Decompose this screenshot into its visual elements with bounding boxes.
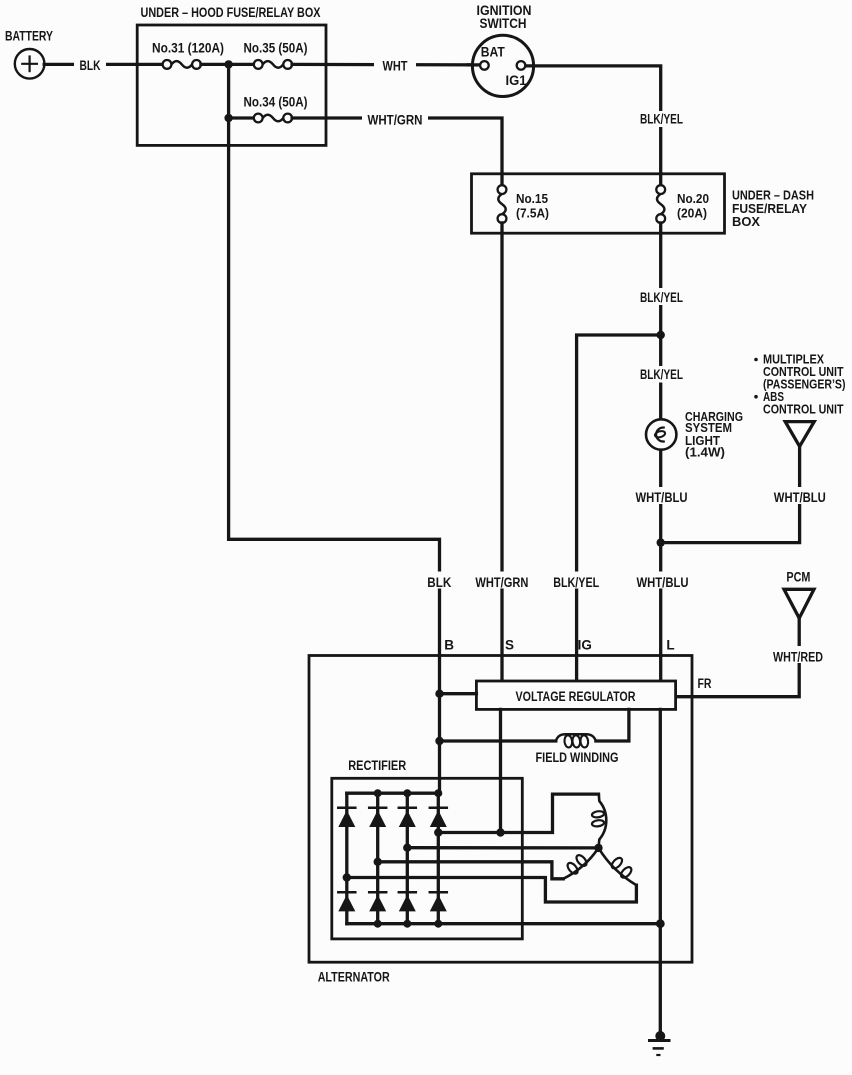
lower diode D8: [430, 892, 447, 911]
svg-text:FR: FR: [698, 676, 712, 691]
phase row C wire: [378, 862, 564, 879]
multiplex connector triangle: [785, 422, 814, 447]
lower diode D6: [369, 892, 386, 911]
svg-text:S: S: [505, 638, 514, 653]
wire IG1 terminal to BLK/YEL trunk: [525, 66, 660, 185]
phase row D wire: [347, 878, 637, 903]
svg-text:VOLTAGE REGULATOR: VOLTAGE REGULATOR: [516, 689, 636, 704]
svg-text:FIELD WINDING: FIELD WINDING: [536, 750, 619, 765]
fuse No.15 (7.5A): [498, 185, 507, 223]
svg-text:WHT/GRN: WHT/GRN: [475, 575, 528, 590]
bottom bus junction col4: [434, 920, 442, 928]
svg-text:L: L: [666, 638, 674, 653]
PCM connector triangle: [784, 589, 814, 618]
svg-text:IG: IG: [578, 638, 592, 653]
field winding wire right to regulator: [596, 709, 629, 741]
svg-text:WHT: WHT: [383, 59, 409, 74]
svg-text:BLK: BLK: [427, 575, 451, 590]
IG branch wire from trunk junction: [577, 335, 661, 681]
svg-text:BLK/YEL: BLK/YEL: [640, 111, 683, 126]
phase row B wire to neutral node: [407, 846, 598, 850]
BAT terminal pin: [480, 61, 489, 70]
wire WHT fuse35 to ignition switch: [292, 63, 480, 67]
upper diode D2: [369, 808, 386, 827]
top bus junction col2: [374, 789, 382, 797]
wire into BAT terminal: [468, 63, 480, 66]
voltage regulator box: [476, 681, 675, 709]
svg-text:No.34 (50A): No.34 (50A): [244, 95, 308, 110]
bottom bus junction col3: [403, 920, 411, 928]
rectifier top bus: [347, 792, 439, 795]
L line regulator to ground bus: [659, 709, 662, 1033]
svg-text:(7.5A): (7.5A): [516, 206, 549, 221]
neutral node of stator: [594, 844, 602, 852]
svg-text:ALTERNATOR: ALTERNATOR: [318, 970, 390, 985]
wire name row: WHT/BLU: [633, 572, 688, 589]
svg-text:PCM: PCM: [786, 569, 810, 584]
upper diode D1: [338, 808, 355, 827]
junction bottom bus to L/ground line: [656, 919, 665, 928]
svg-text:BLK/YEL: BLK/YEL: [640, 367, 683, 382]
wire WHT/BLU from multiplex triangle: [661, 446, 800, 542]
BLK vertical trunk from under-hood box down: [229, 118, 440, 793]
svg-text:CONTROL UNIT: CONTROL UNIT: [763, 401, 844, 416]
alternator box: [309, 656, 692, 963]
wire name row: BLK: [424, 572, 455, 589]
junction row C col2: [374, 858, 382, 866]
phase row A wire to stator coil 1: [438, 794, 598, 832]
svg-text:No.35 (50A): No.35 (50A): [244, 41, 308, 56]
svg-text:WHT/GRN: WHT/GRN: [368, 113, 423, 128]
label gap WHT/BLU mid: [634, 487, 689, 504]
junction node on main feed: [224, 60, 232, 68]
wire name row: BLK/YEL: [553, 572, 600, 589]
wire junction to fuse34: [229, 116, 254, 119]
lower diode D5: [338, 892, 355, 911]
diode column 4 wire: [437, 793, 440, 924]
junction node BLK/YEL branch: [657, 331, 665, 339]
stator coil 3 (right): [599, 848, 637, 885]
top bus junction col3: [403, 789, 411, 797]
charging system light label: [685, 409, 743, 460]
junction node WHT/BLU: [657, 538, 665, 546]
battery B1 symbol: [15, 49, 45, 79]
junction row B col3: [403, 844, 411, 852]
under-dash fuse/relay box: [472, 174, 725, 233]
svg-text:BATTERY: BATTERY: [5, 29, 53, 44]
svg-text:WHT/BLU: WHT/BLU: [636, 490, 688, 505]
fuse No.20 label: [677, 191, 709, 221]
label gap WHT/GRN: [362, 110, 428, 128]
svg-text:BLK: BLK: [80, 58, 101, 73]
field winding wire left: [440, 739, 556, 742]
svg-text:WHT/RED: WHT/RED: [773, 649, 823, 664]
BLK/YEL trunk below fuse20 to regulator L pin: [659, 223, 662, 681]
svg-text:UNDER – HOOD FUSE/RELAY BOX: UNDER – HOOD FUSE/RELAY BOX: [141, 5, 321, 20]
svg-text:B: B: [444, 638, 454, 653]
junction node B-field: [435, 737, 443, 745]
wire WHT/RED from PCM to FR: [676, 618, 800, 697]
multiplex/abs control unit label: [754, 351, 845, 416]
junction row D col1: [343, 873, 351, 881]
upper diode D3: [399, 808, 416, 827]
junction node fuse34 branch: [224, 114, 232, 122]
svg-text:WHT/BLU: WHT/BLU: [637, 575, 689, 590]
svg-text:BOX: BOX: [732, 214, 760, 229]
stator coil 1 (top): [592, 794, 607, 848]
ignition switch SW body: [472, 35, 533, 96]
junction row A S-line: [496, 828, 504, 836]
charging system light bulb: [646, 419, 676, 449]
fuse No.15 label: [516, 191, 549, 221]
wire WHT/GRN fuse34 to S-line corner: [292, 118, 502, 185]
fuse No.20 (20A): [656, 185, 665, 223]
svg-text:WHT/BLU: WHT/BLU: [774, 490, 826, 505]
fuse No.35 (50A): [254, 60, 292, 69]
fuse No.34 (50A): [254, 114, 292, 123]
wire fuse31 to junction: [201, 63, 254, 66]
label gap BLK/YEL 3: [637, 366, 686, 383]
svg-text:No.20: No.20: [677, 191, 709, 206]
svg-text:BLK/YEL: BLK/YEL: [640, 290, 683, 305]
rectifier box: [332, 778, 523, 939]
junction node B-regulator: [435, 690, 443, 698]
svg-text:BAT: BAT: [481, 45, 506, 60]
svg-text:RECTIFIER: RECTIFIER: [348, 758, 406, 773]
under-hood fuse/relay box: [137, 25, 326, 145]
S line WHT/GRN vertical to regulator: [500, 223, 503, 681]
junction row A col4: [434, 828, 442, 836]
wire name row: WHT/GRN: [472, 572, 532, 589]
lower diode D7: [399, 892, 416, 911]
label gap BLK/YEL 2: [637, 288, 686, 305]
stator coil 2 (left): [563, 848, 598, 879]
rectifier bottom bus: [347, 922, 661, 925]
svg-text:IG1: IG1: [506, 73, 527, 88]
wire battery to under-hood box: [44, 63, 162, 66]
svg-text:No.31 (120A): No.31 (120A): [152, 41, 224, 56]
label gap WHT: [374, 56, 416, 74]
upper diode D4: [430, 808, 447, 827]
vertical wire junction to fuse34 junction: [227, 64, 230, 118]
label gap BLK: [74, 55, 106, 73]
label gap BLK/YEL top: [637, 111, 686, 127]
svg-text:(20A): (20A): [677, 206, 707, 221]
label gap WHT/BLU right: [772, 487, 828, 504]
diode column 3 wire: [406, 793, 409, 924]
bottom bus junction col2: [374, 920, 382, 928]
ground G101: [648, 1031, 671, 1055]
under-dash box title: [732, 188, 814, 230]
top bus junction col4 (B line): [434, 789, 442, 797]
svg-text:No.15: No.15: [516, 191, 548, 206]
wire B to regulator: [440, 692, 477, 695]
svg-text:(1.4W): (1.4W): [685, 445, 725, 460]
S sense line regulator to rectifier output: [499, 709, 502, 832]
field winding coil: [556, 734, 596, 748]
svg-text:SWITCH: SWITCH: [480, 16, 527, 31]
svg-text:BLK/YEL: BLK/YEL: [553, 575, 599, 590]
diode column 1 wire: [345, 793, 348, 924]
diode column 2 wire: [376, 793, 379, 924]
IG1 terminal pin: [517, 61, 526, 70]
label gap WHT/RED: [770, 646, 828, 663]
fuse No.31 (120A): [163, 60, 201, 69]
